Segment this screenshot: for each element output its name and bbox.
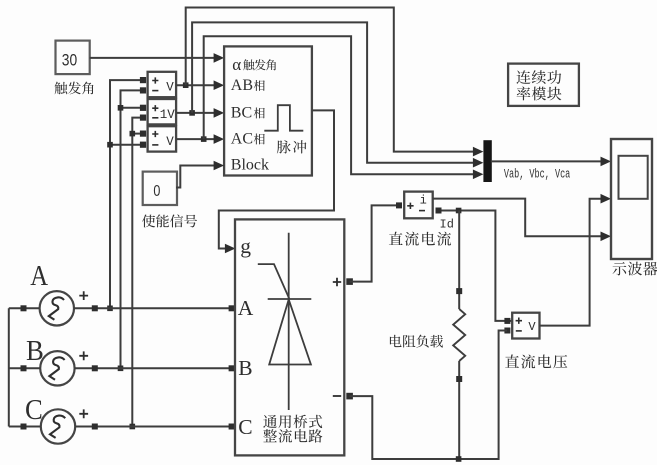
resistor load (电阻负载) [453, 211, 465, 460]
wire: V1 output to AB input [176, 80, 224, 90]
svg-text:C: C [238, 415, 252, 439]
voltage measurement block V2 [140, 99, 176, 124]
voltage measurement block (直流电压) [504, 313, 539, 339]
wire: source C to bridge input C [75, 424, 235, 430]
mux (black bar) [483, 140, 491, 182]
wire: Vca loop over top to mux input 3 [204, 36, 484, 179]
scope block (示波器) [611, 139, 652, 259]
constant block 30 (firing angle) [56, 41, 90, 75]
AC voltage source A [40, 291, 74, 325]
junction phase A / V3- [107, 142, 113, 148]
wire: 30 output to alpha input of pulse generator [90, 53, 224, 63]
svg-text:Vab, Vbc, Vca: Vab, Vbc, Vca [504, 167, 571, 182]
svg-text:α: α [232, 55, 241, 74]
label Id [440, 218, 454, 232]
svg-text:i: i [420, 193, 427, 207]
AC voltage source B [40, 351, 74, 385]
svg-text:BC: BC [231, 104, 252, 121]
svg-text:AC: AC [231, 130, 253, 147]
current measurement block (直流电流) [396, 192, 442, 219]
universal bridge rectifier block [235, 219, 344, 455]
label C [25, 395, 43, 426]
wire: current measurement minus to load top / voltage plus [442, 211, 513, 321]
svg-text:Id: Id [440, 218, 454, 232]
label 直流电压 [505, 354, 567, 368]
svg-text:30: 30 [62, 50, 77, 69]
voltage measurement block V3 [140, 126, 176, 151]
label 示波器 [612, 262, 657, 276]
wire: bridge DC- return along bottom [350, 331, 507, 460]
thyristor icon inside bridge [258, 233, 312, 410]
junction load top [456, 208, 462, 214]
plus polarity mark of source C [79, 409, 88, 418]
wire: pulse output to bridge gate g [219, 110, 334, 253]
junction phase A line [107, 306, 113, 312]
svg-text:A: A [238, 296, 254, 320]
plus polarity mark of source B [79, 351, 88, 360]
bridge DC- output pad [346, 393, 353, 400]
wire: V2 output to BC input [176, 108, 224, 118]
pulse waveform icon [264, 105, 303, 131]
label 触发角 [55, 82, 94, 95]
svg-text:AB: AB [231, 77, 253, 94]
svg-text:g: g [240, 234, 251, 258]
svg-text:0: 0 [153, 183, 160, 200]
junction phase C / V3+ [130, 131, 136, 137]
svg-text:V: V [528, 320, 536, 334]
wire: voltage measurement output to scope input 2 [540, 194, 612, 326]
junction V2 output [189, 110, 195, 116]
junction V3 output [201, 136, 207, 142]
pulse generator block (6-pulse) [224, 46, 312, 175]
junction V1 output [183, 82, 189, 88]
wire: Vab loop over top to mux input 1 [186, 8, 484, 157]
AC voltage source C [41, 409, 75, 443]
label A [30, 261, 48, 292]
junction phase B / V2+ [118, 105, 124, 111]
wire: V3 output to AC input [176, 134, 224, 144]
label 通用桥式 [263, 415, 322, 429]
junction bottom wire / resistor [456, 456, 462, 462]
label 整流电路 [263, 429, 322, 443]
svg-text:1V: 1V [160, 108, 176, 122]
label B [26, 336, 44, 367]
wire: source B left terminal to bus [9, 365, 40, 371]
label 脉冲 [277, 140, 307, 153]
wire: source C left terminal to bus [9, 424, 41, 430]
wire: phase A vertical to V1+ and V3- [110, 80, 140, 308]
wire: 0 output to Block input [176, 161, 224, 188]
wire: bridge DC+ to current measurement input [350, 205, 400, 281]
label 使能信号 [142, 214, 197, 227]
constant block 0 (enable) [143, 172, 177, 205]
bridge DC+ output pad [346, 278, 353, 285]
svg-text:B: B [238, 356, 252, 380]
label 电阻负载 [390, 335, 443, 348]
wire: mux output to scope input 1 [491, 157, 611, 167]
plus polarity mark of source A [79, 291, 88, 300]
label Vab, Vbc, Vca [504, 167, 571, 182]
wire: Vbc loop over top to mux input 2 [192, 22, 483, 167]
wire: current measurement signal Id to scope input 3 [433, 199, 611, 242]
wire: phase B vertical to V1- and V2+ [121, 90, 141, 368]
svg-text:V: V [166, 81, 174, 95]
junction phase C line [130, 424, 136, 430]
wire: source A to bridge input A [74, 305, 235, 311]
wire: source A left terminal to bus [9, 305, 40, 311]
svg-text:Block: Block [231, 157, 269, 174]
wire: phase C vertical to V2- and V3+ [132, 118, 140, 427]
label 直流电流 [389, 232, 451, 246]
wire: source B to bridge input B [75, 365, 235, 371]
svg-text:B: B [26, 336, 44, 367]
neutral bus wire on far left [8, 308, 10, 426]
annotation box 连续功率模块 [508, 64, 579, 106]
junction phase B line [118, 366, 124, 372]
svg-text:A: A [30, 261, 48, 292]
voltage measurement block V1 [140, 72, 176, 97]
svg-text:V: V [166, 135, 174, 149]
svg-text:C: C [25, 395, 43, 426]
